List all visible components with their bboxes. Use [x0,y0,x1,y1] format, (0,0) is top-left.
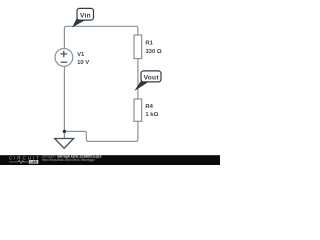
svg-text:Vout: Vout [144,75,160,82]
flag pointer Vin [73,18,84,27]
svg-text:V1: V1 [77,52,85,58]
CircuitLab logo LAB box [9,161,29,163]
label R4 value [145,104,158,118]
CircuitLab logo waveform squiggle [18,160,25,163]
label V1 value [77,52,89,66]
svg-text:10 V: 10 V [77,60,89,66]
node label Vin [77,8,94,20]
svg-text:http://circuitlab.com/c/link.9: http://circuitlab.com/c/link.9sfw5gqx [42,158,95,162]
svg-text:R1: R1 [145,41,153,47]
ground [55,139,74,149]
wire R4 bottom to lower rail with step up to junction [64,121,137,141]
wire node Vout (R1 bottom to R4 top) [137,59,139,100]
wire top-left vertical + top horizontal (node Vin) + right vertical into R1 [64,26,137,49]
svg-text:LAB: LAB [30,160,37,164]
flag pointer Vout [135,80,147,90]
wire V1 bottom to ground junction [63,66,65,138]
svg-text:Vin: Vin [80,12,91,19]
resistor R1 [134,35,142,59]
voltage source V1 [55,49,73,67]
label R1 value [145,41,161,55]
V1 minus sign [61,61,68,63]
svg-text:1 kΩ: 1 kΩ [145,112,158,118]
junction ground node [63,130,66,133]
footer bar [0,155,220,165]
resistor R4 [134,99,142,121]
node label Vout [141,71,161,82]
svg-text:R4: R4 [145,104,153,110]
svg-text:330 Ω: 330 Ω [145,49,161,55]
V1 plus sign [60,51,67,58]
